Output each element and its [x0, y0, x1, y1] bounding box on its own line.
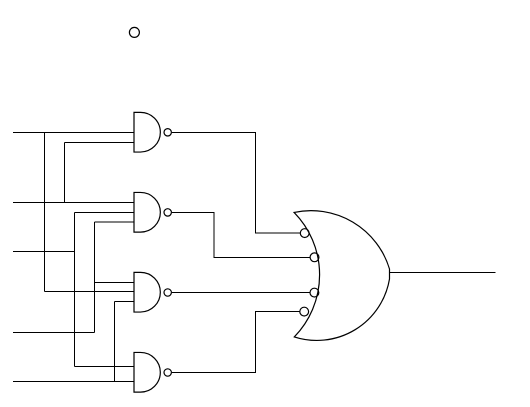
nand-gate U2: [134, 192, 171, 232]
wire gate1 output to or-gate input 1: [172, 132, 300, 233]
nand-gate U3: [134, 272, 171, 312]
nand-gate U4: [134, 352, 171, 392]
wire riser V3: [74, 212, 76, 366]
wire V1 to gate3 input 2: [44, 291, 134, 293]
wire riser V4: [94, 222, 96, 332]
or-gate U5: [294, 211, 389, 341]
wire V4 to gate3 input 1: [95, 281, 134, 283]
input bubble 1 of or-gate: [300, 229, 309, 238]
input bubble 4 of or-gate: [300, 307, 309, 316]
wire V3 to gate4 input 1: [75, 365, 134, 367]
wire riser V5: [113, 301, 115, 381]
node circle (unconnected pin): [129, 27, 139, 37]
wire V4 to gate2 input 3: [95, 221, 134, 223]
wire input row 3: [13, 251, 75, 253]
nand-gate U1: [134, 112, 171, 152]
wire riser V2: [64, 142, 66, 202]
wire input row 5: [13, 380, 134, 382]
wire gate2 output to or-gate input 2: [172, 212, 310, 257]
wire V5 to gate3 input 3: [114, 300, 134, 302]
wire gate4 output to or-gate input 4: [172, 312, 300, 373]
wire input row 1: [13, 131, 134, 133]
wire gate3 output to or-gate input 3: [172, 292, 310, 294]
wire V3 to gate2 input 2: [75, 211, 134, 213]
input bubble 2 of or-gate: [310, 253, 319, 262]
wire output: [390, 272, 496, 274]
wire input row 4: [13, 331, 95, 333]
wire input row 2: [13, 202, 134, 204]
input bubble 3 of or-gate: [310, 288, 319, 297]
wire V2 to gate1 input 2: [65, 141, 135, 143]
wire riser V1: [43, 132, 45, 291]
